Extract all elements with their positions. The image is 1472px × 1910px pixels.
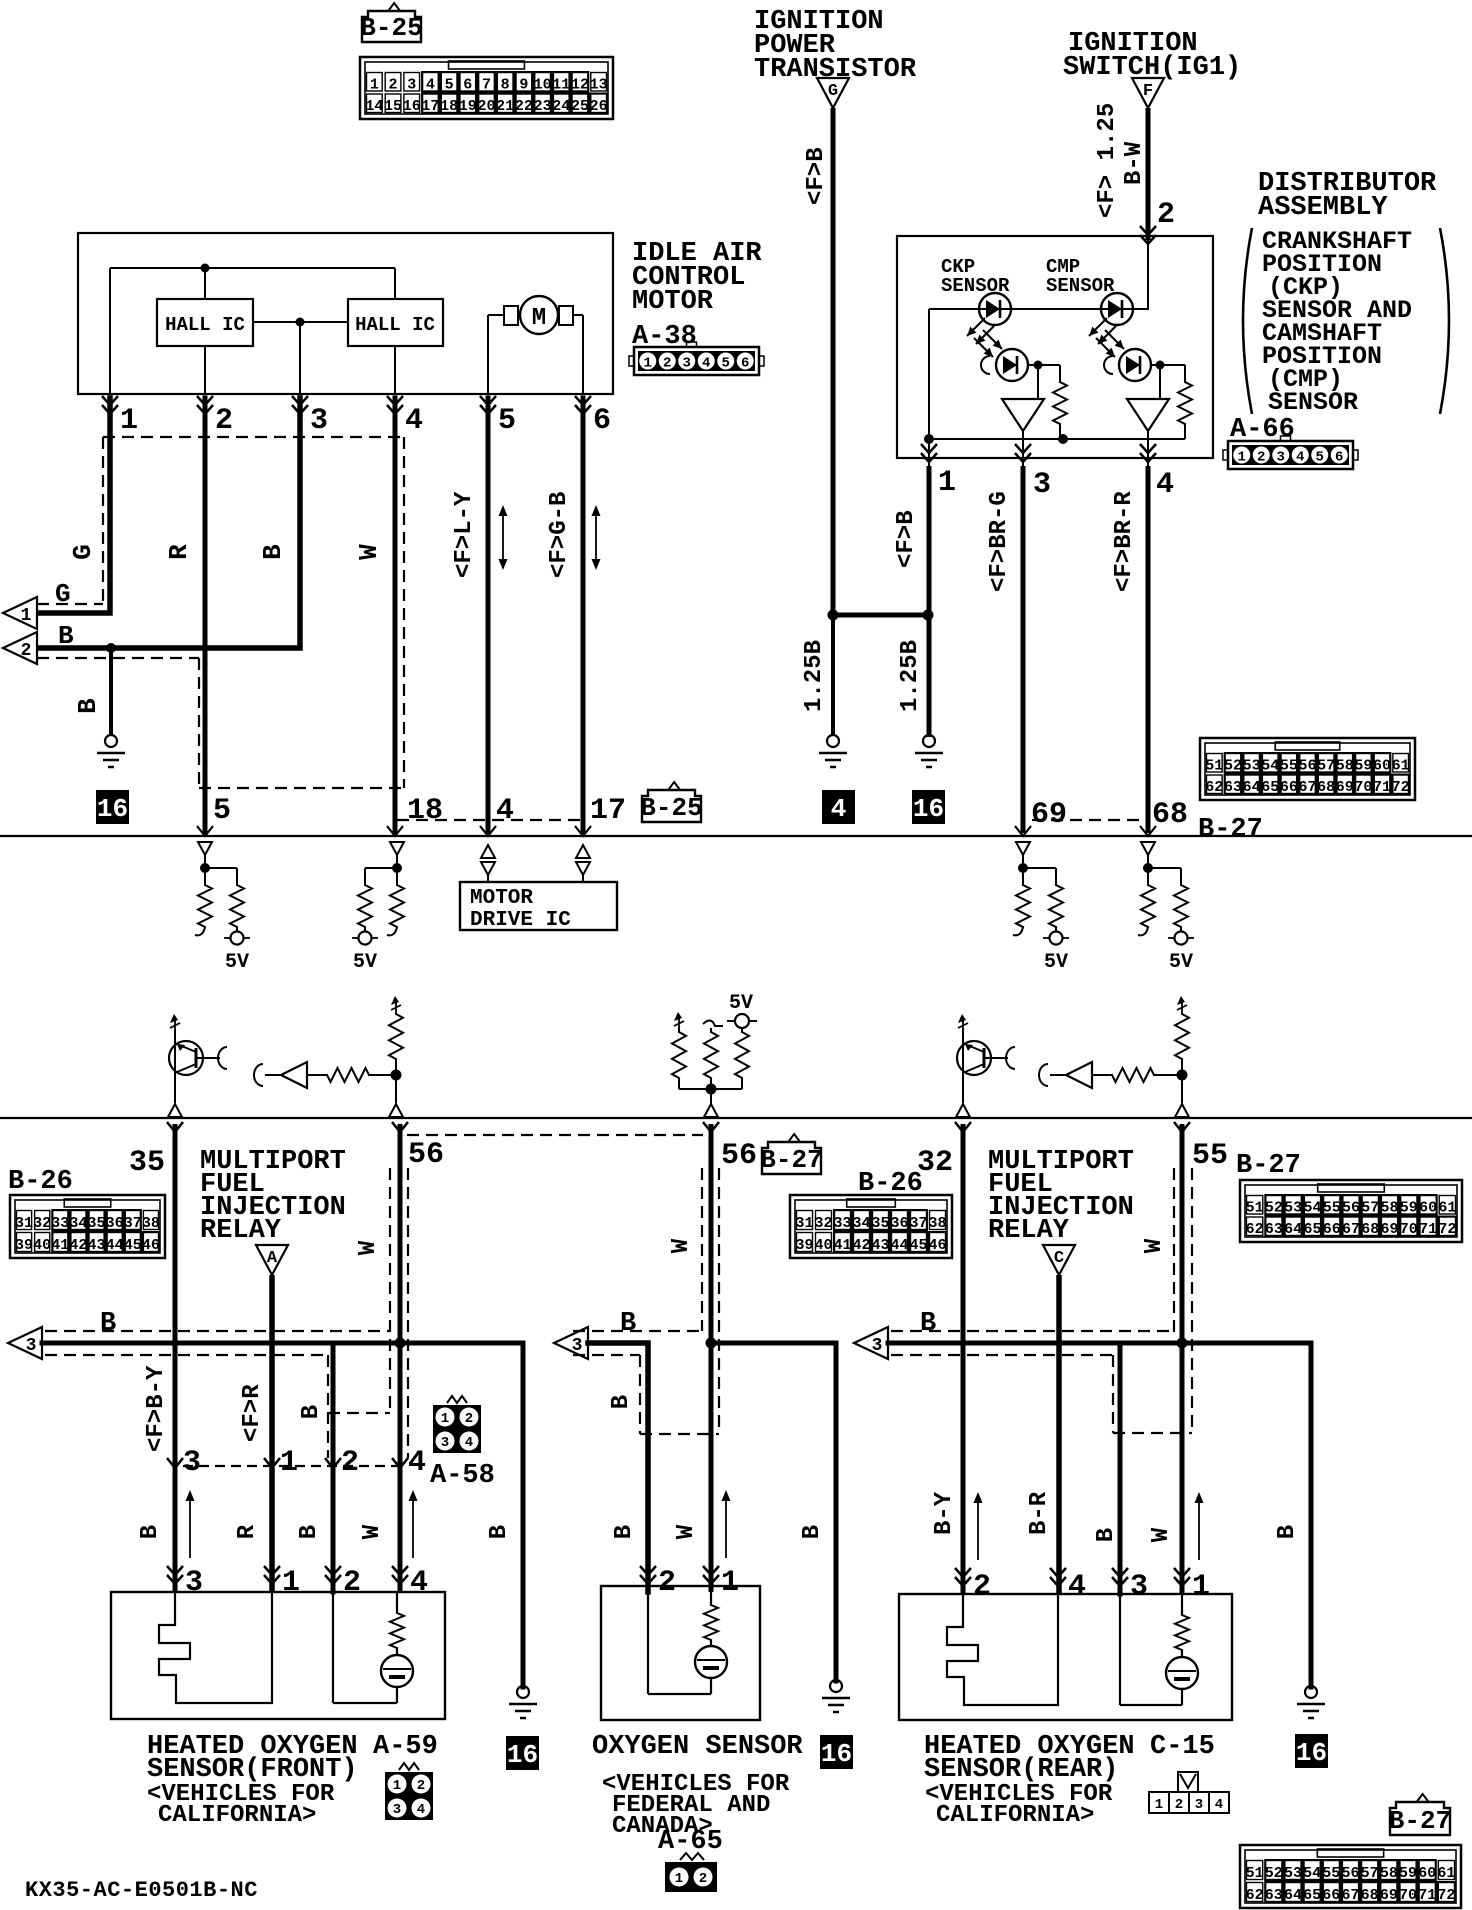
- connector A-38 6pin: [629, 342, 764, 375]
- svg-text:5V: 5V: [1044, 951, 1068, 974]
- label R rotated: [164, 544, 194, 560]
- connector A-59: [385, 1763, 433, 1820]
- ground symbol left: [97, 735, 125, 767]
- label DISTRIBUTOR ASSEMBLY: [1258, 169, 1437, 223]
- passthrough pin4 motor: [481, 845, 495, 882]
- svg-text:70: 70: [1354, 779, 1372, 796]
- wire cmp pin4 drop: [1147, 431, 1149, 466]
- svg-text:HALL IC: HALL IC: [355, 314, 435, 336]
- wire end chevron bus1 x583: [575, 826, 591, 836]
- label MULTIPORT FUEL INJECTION RELAY 2: [988, 1147, 1134, 1246]
- wire FLY pin5: [486, 398, 491, 833]
- svg-text:<F>BR-R: <F>BR-R: [1111, 491, 1138, 592]
- pin 6 chevron A-38: [575, 396, 591, 414]
- svg-text:B: B: [611, 1525, 638, 1539]
- label 68: [1152, 798, 1188, 832]
- svg-text:4: 4: [405, 404, 423, 438]
- label B rotated c2 gnd: [799, 1525, 826, 1539]
- ground ref 4: [822, 790, 855, 824]
- svg-text:HALL IC: HALL IC: [165, 314, 245, 336]
- svg-text:55: 55: [1323, 1200, 1341, 1217]
- junction dot ign left: [828, 610, 839, 621]
- svg-text:70: 70: [1399, 1887, 1417, 1904]
- svg-text:34: 34: [852, 1215, 870, 1232]
- label A-59: [373, 1732, 438, 1762]
- wire W pin4: [393, 398, 398, 833]
- svg-text:MOTOR: MOTOR: [470, 887, 533, 910]
- svg-text:71: 71: [1419, 1221, 1437, 1238]
- svg-text:61: 61: [1438, 1200, 1456, 1217]
- connector B-26 left grid: [10, 1195, 165, 1258]
- svg-text:W: W: [673, 1524, 700, 1539]
- dashed arrow3 lower c1: [45, 1354, 328, 1356]
- dashed jog horiz c1: [328, 1412, 390, 1414]
- dashed bottom: [199, 787, 404, 789]
- svg-text:35: 35: [871, 1215, 889, 1232]
- svg-text:64: 64: [1284, 1887, 1302, 1904]
- svg-text:22: 22: [515, 98, 533, 115]
- label A-58: [430, 1461, 495, 1491]
- svg-text:63: 63: [1265, 1887, 1283, 1904]
- chevron dist pin1: [921, 444, 937, 462]
- svg-text:5V: 5V: [729, 992, 753, 1015]
- dashed to arrow1: [37, 603, 103, 605]
- connector label B-27 (bottom): [1389, 1794, 1451, 1836]
- dashed jog vert c2: [639, 1355, 641, 1434]
- wire B pin3: [37, 398, 300, 648]
- svg-text:37: 37: [909, 1215, 927, 1232]
- ecu resistor cg4: [1175, 1014, 1189, 1059]
- svg-text:5V: 5V: [353, 951, 377, 974]
- connector arrow 1: [3, 597, 37, 629]
- opamp CKP: [1002, 399, 1044, 431]
- svg-text:1: 1: [675, 1871, 683, 1887]
- svg-text:40: 40: [33, 1237, 51, 1254]
- dashed vert mid: [198, 658, 200, 788]
- chevron sensor C-15 pin 1: [1174, 1568, 1190, 1586]
- svg-text:5: 5: [722, 356, 730, 372]
- svg-text:59: 59: [1399, 1865, 1417, 1882]
- svg-text:33: 33: [51, 1215, 69, 1232]
- svg-text:6: 6: [463, 77, 472, 94]
- svg-text:B: B: [920, 1309, 936, 1339]
- svg-text:2: 2: [215, 404, 233, 438]
- svg-text:69: 69: [1336, 779, 1354, 796]
- svg-text:2: 2: [663, 356, 671, 372]
- connector label B-25 (top): [360, 3, 422, 43]
- pin 5 chevron A-38: [480, 396, 496, 414]
- label 4 pin: [496, 794, 514, 828]
- wire cmp opamp: [1159, 365, 1161, 399]
- svg-text:<F>B: <F>B: [893, 510, 920, 568]
- wire FGB pin6: [581, 398, 586, 833]
- svg-text:2: 2: [1175, 1797, 1183, 1813]
- svg-text:B: B: [58, 621, 74, 651]
- relay terminal C: [1043, 1245, 1075, 1275]
- light arrows CMP recv: [1096, 330, 1124, 357]
- label sensor A-59 pin 3: [185, 1566, 203, 1600]
- heated oxygen sensor front box: [111, 1592, 445, 1719]
- label 5: [213, 794, 231, 828]
- svg-text:1: 1: [1155, 1797, 1163, 1813]
- svg-text:35: 35: [129, 1146, 165, 1180]
- heater element c3: [947, 1594, 1058, 1705]
- svg-text:63: 63: [1265, 1221, 1283, 1238]
- svg-text:<F>L-Y: <F>L-Y: [451, 491, 478, 578]
- ecu transistor 3 bus arrow: [956, 1104, 970, 1117]
- junction dot cg4: [1177, 1070, 1188, 1081]
- chevron 35: [167, 1122, 183, 1132]
- svg-text:MOTOR: MOTOR: [632, 287, 714, 317]
- svg-text:17: 17: [421, 98, 439, 115]
- svg-text:KX35-AC-E0501B-NC: KX35-AC-E0501B-NC: [25, 1878, 258, 1903]
- svg-text:B: B: [137, 1525, 164, 1539]
- wire pin1 drop: [928, 439, 930, 466]
- svg-text:1: 1: [370, 77, 379, 94]
- svg-text:51: 51: [1205, 758, 1223, 775]
- wire top rail in A-38: [110, 267, 395, 269]
- svg-text:<F>G-B: <F>G-B: [546, 492, 573, 578]
- wire F B dist: [927, 466, 932, 737]
- svg-text:B: B: [100, 1309, 116, 1339]
- svg-text:1: 1: [21, 606, 32, 626]
- wire end chevron bus1 x1148: [1140, 826, 1156, 836]
- signal arrow c1 a: [186, 1490, 195, 1558]
- label 1.25B left: [801, 640, 828, 712]
- dashed shield right c2: [718, 1168, 720, 1434]
- svg-text:B-27: B-27: [1389, 1806, 1451, 1836]
- wire pin3 riser: [299, 322, 301, 394]
- pin 4 label A-38: [405, 404, 423, 438]
- svg-text:5: 5: [1316, 450, 1324, 466]
- wire 55 W: [1180, 1124, 1185, 1594]
- svg-text:B: B: [73, 698, 103, 714]
- label sensor A-59 pin 4: [410, 1566, 428, 1600]
- svg-text:70: 70: [1400, 1221, 1418, 1238]
- label 17: [590, 794, 626, 828]
- svg-text:64: 64: [1243, 779, 1261, 796]
- label A-58 pin 2: [341, 1446, 359, 1480]
- wire dist left riser: [928, 309, 930, 439]
- dashed harness left: [102, 437, 104, 604]
- ground ref 16 c3: [1295, 1734, 1328, 1768]
- svg-text:66: 66: [1322, 1887, 1340, 1904]
- label dist pin3: [1033, 468, 1051, 502]
- label sensor A-65 pin 1: [721, 1566, 739, 1600]
- wire end chevron bus1 x395: [387, 826, 403, 836]
- svg-text:66: 66: [1280, 779, 1298, 796]
- wire hall link: [253, 321, 348, 323]
- connector B-25 pin grid: [360, 57, 613, 119]
- connector B-27 top grid: [1200, 738, 1415, 800]
- pull-up resistors pin5 idle: [195, 842, 250, 974]
- label B rotated mid c1: [298, 1405, 325, 1419]
- svg-text:B: B: [298, 1405, 325, 1419]
- chevron dist pin4: [1140, 444, 1156, 462]
- svg-text:67: 67: [1298, 779, 1316, 796]
- ignition switch terminal F: [1132, 78, 1164, 108]
- svg-text:38: 38: [142, 1215, 160, 1232]
- sensor cell c2: [648, 1586, 727, 1694]
- junction dot rail mid: [1058, 434, 1068, 444]
- ignition power transistor terminal G: [817, 78, 849, 108]
- svg-text:20: 20: [477, 98, 495, 115]
- wire relay A: [269, 1275, 275, 1592]
- svg-text:65: 65: [1303, 1887, 1321, 1904]
- ecu comparator 4: [1039, 1062, 1112, 1088]
- svg-text:1: 1: [1192, 1570, 1210, 1604]
- wire 56 W c1: [398, 1124, 403, 1592]
- svg-text:F: F: [1143, 82, 1153, 101]
- svg-text:16: 16: [97, 794, 128, 824]
- wire B ground c3: [1309, 1343, 1314, 1687]
- connector B-27 bottom grid: [1240, 1845, 1461, 1908]
- svg-text:2: 2: [699, 1871, 707, 1887]
- led CMP: [1101, 293, 1133, 325]
- svg-text:3: 3: [407, 77, 416, 94]
- svg-text:25: 25: [571, 98, 589, 115]
- double arrow pin5: [499, 505, 508, 570]
- hall IC 2: [348, 299, 443, 346]
- svg-text:72: 72: [1438, 1221, 1456, 1238]
- svg-text:2: 2: [465, 1411, 473, 1427]
- svg-text:R: R: [164, 544, 194, 560]
- wire B ground drop: [109, 648, 113, 735]
- svg-text:G: G: [68, 544, 98, 560]
- svg-text:1: 1: [721, 1566, 739, 1600]
- svg-text:B: B: [258, 544, 288, 560]
- ecu transistor 3: [957, 1030, 1015, 1103]
- photodiode CKP: [981, 349, 1028, 381]
- wire B net c1: [42, 1341, 523, 1346]
- svg-text:6: 6: [741, 356, 749, 372]
- svg-text:B-Y: B-Y: [931, 1491, 958, 1535]
- svg-text:2: 2: [21, 641, 32, 661]
- svg-text:41: 41: [833, 1237, 851, 1254]
- svg-text:13: 13: [590, 77, 608, 94]
- dashed shield right c3: [1191, 1168, 1193, 1433]
- svg-text:4: 4: [496, 794, 514, 828]
- svg-text:3: 3: [683, 356, 691, 372]
- label B-26 left: [8, 1167, 73, 1197]
- svg-text:W: W: [355, 1240, 382, 1255]
- label HEATED OXYGEN SENSOR FRONT: [147, 1732, 358, 1829]
- svg-text:4: 4: [1215, 1797, 1223, 1813]
- svg-text:4: 4: [1068, 1570, 1086, 1604]
- svg-text:W: W: [354, 544, 384, 560]
- svg-text:34: 34: [69, 1215, 87, 1232]
- junction dot shield c1: [395, 1338, 406, 1349]
- label B arrow3 c3: [920, 1309, 936, 1339]
- svg-text:C-15: C-15: [1150, 1732, 1215, 1762]
- dashed at bus: [397, 819, 584, 821]
- label sensor C-15 pin 2: [973, 1570, 991, 1604]
- label B arrow3 c1: [100, 1309, 116, 1339]
- dashed arrow3 lower c3: [891, 1354, 1113, 1356]
- svg-text:3: 3: [1277, 450, 1285, 466]
- pin 3 chevron A-38: [292, 396, 308, 414]
- svg-text:60: 60: [1418, 1865, 1436, 1882]
- svg-text:38: 38: [928, 1215, 946, 1232]
- svg-text:36: 36: [890, 1215, 908, 1232]
- svg-text:42: 42: [69, 1237, 87, 1254]
- svg-text:G: G: [828, 82, 838, 101]
- svg-text:3: 3: [310, 404, 328, 438]
- svg-text:15: 15: [384, 98, 402, 115]
- wire led rail: [929, 308, 1149, 310]
- svg-text:65: 65: [1303, 1221, 1321, 1238]
- svg-text:3: 3: [183, 1446, 201, 1480]
- svg-text:58: 58: [1380, 1865, 1398, 1882]
- svg-text:1: 1: [393, 1778, 401, 1794]
- wire pin2 riser: [204, 346, 206, 394]
- svg-text:4: 4: [465, 1435, 473, 1451]
- label A-58 pin 1: [280, 1446, 298, 1480]
- resistor CMP: [1178, 365, 1192, 439]
- svg-text:32: 32: [33, 1215, 51, 1232]
- signal arrow c3 b: [1195, 1492, 1204, 1560]
- label 1.25B right: [897, 640, 924, 712]
- label F BR-R: [1111, 491, 1138, 592]
- label 56 c1: [408, 1138, 444, 1172]
- label G horizontal: [55, 579, 71, 609]
- ecu comparator 1 resistor: [327, 1068, 396, 1082]
- chevron sensor A-65 pin 2: [640, 1566, 656, 1584]
- svg-text:OXYGEN SENSOR: OXYGEN SENSOR: [592, 1732, 803, 1762]
- chevron A-58 pin 1: [264, 1458, 280, 1468]
- pin 2 chevron A-38: [197, 396, 213, 414]
- svg-text:59: 59: [1400, 1200, 1418, 1217]
- ground symbol c1: [509, 1686, 537, 1718]
- wire end chevron bus1 x205: [197, 826, 213, 836]
- chevron sensor A-59 pin 2: [325, 1566, 341, 1584]
- label IDLE AIR CONTROL MOTOR: [632, 239, 762, 352]
- svg-text:7: 7: [482, 77, 491, 94]
- chevron sensor A-59 pin 3: [167, 1566, 183, 1584]
- svg-text:67: 67: [1341, 1887, 1359, 1904]
- svg-text:SENSOR: SENSOR: [1046, 275, 1115, 297]
- label W rotated c3: [1148, 1527, 1175, 1542]
- oxygen sensor box A-65: [601, 1586, 760, 1720]
- wire B pin3 c3: [1118, 1343, 1123, 1594]
- svg-text:69: 69: [1381, 1221, 1399, 1238]
- svg-text:B-25: B-25: [640, 793, 702, 823]
- connector arrow 3 c2: [554, 1327, 588, 1359]
- svg-text:68: 68: [1317, 779, 1335, 796]
- svg-text:54: 54: [1303, 1200, 1321, 1217]
- junction dot ign right: [923, 610, 934, 621]
- ground symbol ign left: [819, 735, 847, 767]
- dashed arrow3 upper c1: [45, 1330, 390, 1332]
- junction dot hall link: [296, 318, 305, 327]
- pin 2 label A-38: [215, 404, 233, 438]
- ecu internal bus line 1: [0, 835, 1472, 837]
- dashed shield left c2: [701, 1168, 703, 1331]
- svg-text:56: 56: [1341, 1865, 1359, 1882]
- led CKP: [979, 293, 1011, 325]
- signal arrow c1 b: [409, 1490, 418, 1558]
- label W rotated c3 top: [1141, 1238, 1168, 1253]
- label CMP SENSOR: [1046, 256, 1115, 297]
- label 2 distributor: [1157, 198, 1175, 232]
- svg-text:44: 44: [890, 1237, 908, 1254]
- dashed arrow3 upper c3: [891, 1330, 1174, 1332]
- svg-text:61: 61: [1437, 1865, 1455, 1882]
- connector arrow 3 c1: [8, 1327, 42, 1359]
- dashed jog horiz c3: [1113, 1432, 1192, 1434]
- chevron sensor A-59 pin 1: [264, 1566, 280, 1584]
- svg-text:46: 46: [142, 1237, 160, 1254]
- pin 1 chevron A-38: [102, 396, 118, 414]
- pull-up resistors pin18 idle: [352, 842, 404, 974]
- dashed harness right: [403, 437, 405, 788]
- svg-text:52: 52: [1265, 1865, 1283, 1882]
- svg-text:45: 45: [124, 1237, 142, 1254]
- page symbol tg3: [958, 1014, 968, 1032]
- svg-text:RELAY: RELAY: [200, 1216, 282, 1246]
- svg-text:40: 40: [814, 1237, 832, 1254]
- svg-text:B-R: B-R: [1026, 1491, 1053, 1535]
- svg-text:1.25B: 1.25B: [801, 640, 828, 712]
- svg-text:2: 2: [341, 1446, 359, 1480]
- svg-text:42: 42: [852, 1237, 870, 1254]
- label B rotated c3 gnd: [1274, 1525, 1301, 1539]
- label F B rotated dist: [893, 510, 920, 568]
- chevron A-58 pin 2: [325, 1458, 341, 1468]
- connector A-58: [433, 1396, 481, 1453]
- pin 3 label A-38: [310, 404, 328, 438]
- svg-text:4: 4: [831, 794, 847, 824]
- label B-27 top: [1198, 815, 1263, 845]
- svg-text:1: 1: [280, 1446, 298, 1480]
- wire hall2 top: [394, 268, 396, 299]
- svg-text:60: 60: [1373, 758, 1391, 775]
- svg-text:4: 4: [417, 1802, 425, 1818]
- svg-text:35: 35: [88, 1215, 106, 1232]
- svg-text:1: 1: [120, 404, 138, 438]
- svg-text:12: 12: [571, 77, 589, 94]
- svg-text:5V: 5V: [1169, 951, 1193, 974]
- wire B ground c1: [521, 1343, 526, 1687]
- label B rotated mid c2: [608, 1395, 635, 1409]
- svg-text:62: 62: [1205, 779, 1223, 796]
- connector B-26 right grid: [790, 1195, 952, 1258]
- label B arrow3 c2: [620, 1309, 636, 1339]
- svg-text:<F>BR-G: <F>BR-G: [986, 491, 1013, 592]
- svg-text:65: 65: [1261, 779, 1279, 796]
- chevron sensor A-65 pin 1: [703, 1566, 719, 1584]
- svg-text:ASSEMBLY: ASSEMBLY: [1258, 193, 1388, 223]
- junction dot rail: [201, 264, 210, 273]
- wire B net c3: [888, 1341, 1311, 1346]
- label F B rotated top: [803, 147, 830, 205]
- svg-text:53: 53: [1284, 1865, 1302, 1882]
- svg-text:<F>B-Y: <F>B-Y: [143, 1365, 170, 1452]
- junction dot B ground: [106, 643, 116, 653]
- svg-text:21: 21: [496, 98, 514, 115]
- svg-text:45: 45: [909, 1237, 927, 1254]
- connector label B-25 (bus): [640, 782, 702, 823]
- junction dot c2: [706, 1338, 717, 1349]
- connector A-66 6pin: [1223, 436, 1358, 469]
- svg-text:16: 16: [1296, 1738, 1327, 1768]
- svg-text:2: 2: [1157, 198, 1175, 232]
- svg-text:5: 5: [213, 794, 231, 828]
- svg-text:6: 6: [593, 404, 611, 438]
- svg-text:41: 41: [51, 1237, 69, 1254]
- svg-text:33: 33: [833, 1215, 851, 1232]
- chevron dist pin3: [1015, 444, 1031, 462]
